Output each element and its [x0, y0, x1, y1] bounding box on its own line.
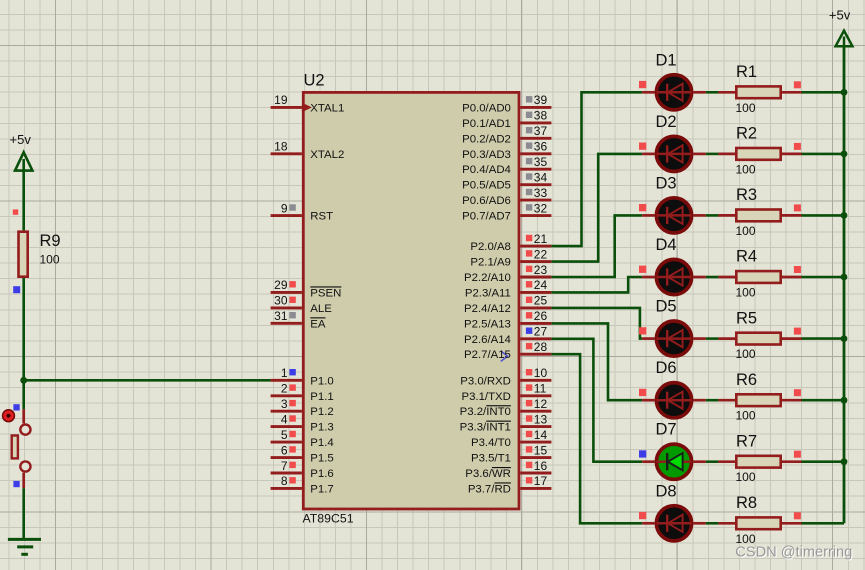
AT89C51 part value label — [303, 512, 354, 526]
svg-text:XTAL1: XTAL1 — [310, 102, 344, 114]
R3 label — [736, 186, 757, 204]
R6 value 100 — [736, 409, 756, 423]
resistor R5 — [718, 333, 801, 345]
svg-text:R5: R5 — [736, 309, 757, 327]
pin 15 (P3.5/T1) right side — [471, 443, 551, 464]
svg-text:P1.6: P1.6 — [310, 468, 333, 480]
svg-text:16: 16 — [534, 459, 548, 473]
svg-text:29: 29 — [274, 278, 288, 292]
R1 label — [736, 63, 757, 81]
pin 4 (P1.3) left side — [271, 412, 334, 433]
pin 23 (P2.2/A10) right side — [464, 263, 551, 284]
wire +5v to R9 — [22, 171, 25, 231]
pin 37 (P0.2/AD2) right side — [462, 124, 551, 145]
junction dot R9/P1.0/button — [20, 377, 27, 384]
svg-text:P1.0: P1.0 — [310, 375, 333, 387]
LED D3 — [642, 198, 706, 233]
svg-text:P2.2/A10: P2.2/A10 — [464, 272, 511, 284]
LED D4 — [642, 259, 706, 294]
svg-text:P2.7/A15: P2.7/A15 — [464, 349, 511, 361]
svg-text:D6: D6 — [656, 359, 677, 377]
pin 39 (P0.0/AD0) right side — [462, 93, 551, 114]
svg-text:P2.5/A13: P2.5/A13 — [464, 318, 511, 330]
svg-text:P3.1/TXD: P3.1/TXD — [462, 391, 511, 403]
pin 32 (P0.7/AD7) right side — [462, 201, 551, 222]
wire resistor R8 to +5v rail — [802, 522, 845, 525]
svg-text:R8: R8 — [736, 494, 757, 512]
pin 14 (P3.4/T0) right side — [471, 428, 551, 449]
push button top contact — [20, 425, 30, 435]
svg-text:23: 23 — [534, 263, 548, 277]
svg-text:2: 2 — [281, 382, 288, 396]
pin 35 (P0.4/AD4) right side — [462, 155, 551, 176]
R1 rail-side state square — [794, 81, 801, 88]
wire P2.6 (pin 27) to LED D7 — [551, 339, 642, 462]
svg-text:6: 6 — [281, 443, 288, 457]
wire LED D5 to resistor R5 — [706, 337, 719, 340]
svg-text:100: 100 — [736, 101, 756, 115]
wire P2.2 (pin 23) to LED D3 — [551, 215, 642, 277]
pin 7 (P1.6) left side — [271, 459, 334, 480]
D6 label — [656, 359, 677, 377]
svg-text:D3: D3 — [656, 174, 677, 192]
svg-text:PSEN: PSEN — [310, 287, 341, 299]
resistor R6 — [718, 394, 801, 406]
LED D5 state square — [639, 327, 646, 334]
push button bottom contact — [20, 461, 30, 471]
wire LED D7 to resistor R7 — [706, 460, 719, 463]
wire P2.3 (pin 24) to LED D4 — [551, 277, 642, 292]
CSDN watermark — [735, 544, 853, 561]
svg-text:P3.2/INT0: P3.2/INT0 — [460, 406, 511, 418]
svg-text:14: 14 — [534, 428, 548, 442]
junction dot rail/R6 — [841, 397, 848, 404]
resistor R3 — [718, 210, 801, 222]
junction dot rail/R3 — [841, 212, 848, 219]
wire resistor R7 to +5v rail — [802, 460, 845, 463]
svg-text:18: 18 — [274, 140, 288, 154]
resistor R2 — [718, 148, 801, 160]
pin 28 bus-entry chevron marker — [501, 351, 508, 361]
svg-text:D2: D2 — [656, 113, 677, 131]
pin 31 (EA) left side — [271, 309, 326, 330]
svg-text:100: 100 — [736, 162, 756, 176]
svg-text:7: 7 — [281, 459, 288, 473]
R5 value 100 — [736, 347, 756, 361]
R8 label — [736, 494, 757, 512]
wire junction to pin 1 (P1.0) — [24, 379, 271, 382]
svg-text:100: 100 — [736, 224, 756, 238]
junction dot rail/R7 — [841, 458, 848, 465]
resistor R8 — [718, 517, 801, 529]
pin 29 (PSEN) left side — [271, 278, 342, 299]
D1 label — [656, 51, 677, 69]
junction dot rail/R5 — [841, 335, 848, 342]
R8 rail-side state square — [794, 512, 801, 519]
pin 19 (XTAL1) left side — [271, 93, 345, 114]
pin 2 (P1.1) left side — [271, 382, 334, 403]
svg-text:P2.0/A8: P2.0/A8 — [470, 241, 511, 253]
svg-text:+5v: +5v — [829, 8, 851, 23]
svg-text:P3.5/T1: P3.5/T1 — [471, 453, 511, 465]
svg-text:P1.4: P1.4 — [310, 437, 333, 449]
junction dot rail/R2 — [841, 151, 848, 158]
pin 12 (P3.2/INT0) right side — [460, 397, 552, 418]
pin 10 (P3.0/RXD) right side — [460, 366, 551, 387]
LED D7 — [642, 444, 706, 479]
LED D4 state square — [639, 266, 646, 273]
R3 value 100 — [736, 224, 756, 238]
R4 value 100 — [736, 286, 756, 300]
LED D6 — [642, 383, 706, 418]
svg-text:R3: R3 — [736, 186, 757, 204]
D5 label — [656, 298, 677, 316]
svg-text:XTAL2: XTAL2 — [310, 149, 344, 161]
svg-text:P3.4/T0: P3.4/T0 — [471, 437, 511, 449]
pin 8 (P1.7) left side — [271, 474, 334, 495]
+5v power symbol top left — [10, 132, 33, 171]
svg-text:P2.6/A14: P2.6/A14 — [464, 334, 511, 346]
pin 24 (P2.3/A11) right side — [465, 278, 552, 299]
pin 27 (P2.6/A14) right side — [464, 325, 551, 346]
R2 value 100 — [736, 162, 756, 176]
LED D2 — [642, 136, 706, 171]
pin 36 (P0.3/AD3) right side — [462, 140, 551, 161]
R6 rail-side state square — [794, 389, 801, 396]
pin 1 (P1.0) left side — [271, 366, 334, 387]
resistor R7 — [718, 456, 801, 468]
D8 label — [656, 482, 677, 500]
wire P2.5 (pin 26) to LED D6 — [551, 323, 642, 400]
U2 reference label — [304, 72, 325, 90]
svg-text:17: 17 — [534, 474, 548, 488]
wire LED D6 to resistor R6 — [706, 399, 719, 402]
pin 9 (RST) left side — [271, 201, 334, 222]
svg-text:12: 12 — [534, 397, 548, 411]
pin 16 (P3.6/WR) right side — [465, 459, 551, 480]
wire LED D4 to resistor R4 — [706, 276, 719, 279]
svg-text:R9: R9 — [40, 232, 61, 250]
+5v vertical rail wire — [843, 46, 846, 524]
pin 28 (P2.7/A15) right side — [464, 340, 551, 361]
pin 25 (P2.4/A12) right side — [464, 294, 551, 315]
IC U2 (AT89C51) body — [303, 92, 519, 509]
wire resistor R3 to +5v rail — [802, 214, 845, 217]
R7 rail-side state square — [794, 451, 801, 458]
R5 label — [736, 309, 757, 327]
LED D2 state square — [639, 143, 646, 150]
pin 30 (ALE) left side — [271, 294, 333, 315]
svg-text:R2: R2 — [736, 125, 757, 143]
svg-text:100: 100 — [736, 286, 756, 300]
pin 11 (P3.1/TXD) right side — [462, 382, 552, 403]
R2 rail-side state square — [794, 143, 801, 150]
svg-text:P0.4/AD4: P0.4/AD4 — [462, 164, 511, 176]
wire LED D3 to resistor R3 — [706, 214, 719, 217]
LED D3 state square — [639, 204, 646, 211]
wire LED D2 to resistor R2 — [706, 153, 719, 156]
svg-text:P0.6/AD6: P0.6/AD6 — [462, 195, 511, 207]
svg-text:31: 31 — [274, 309, 288, 323]
svg-text:R6: R6 — [736, 371, 757, 389]
svg-text:35: 35 — [534, 155, 548, 169]
pin 13 (P3.3/INT1) right side — [460, 412, 552, 433]
R8 value 100 — [736, 532, 756, 546]
pin 17 (P3.7/RD) right side — [468, 474, 552, 495]
svg-text:D5: D5 — [656, 298, 677, 316]
svg-text:13: 13 — [534, 412, 548, 426]
pin 26 (P2.5/A13) right side — [464, 309, 551, 330]
svg-text:P1.1: P1.1 — [310, 391, 333, 403]
wire resistor R1 to +5v rail — [802, 91, 845, 94]
svg-text:28: 28 — [534, 340, 548, 354]
svg-text:R7: R7 — [736, 432, 757, 450]
R1 value 100 — [736, 101, 756, 115]
wire resistor R2 to +5v rail — [802, 153, 845, 156]
svg-text:P3.0/RXD: P3.0/RXD — [460, 375, 511, 387]
pin 34 (P0.5/AD5) right side — [462, 171, 551, 192]
R6 label — [736, 371, 757, 389]
R9 top state square (red) — [13, 209, 18, 214]
D7 label — [656, 421, 677, 439]
svg-text:P2.3/A11: P2.3/A11 — [465, 287, 511, 299]
junction dot rail/R1 — [841, 89, 848, 96]
+5v power symbol top right — [829, 8, 853, 47]
svg-text:10: 10 — [534, 366, 548, 380]
push button actuator bar — [12, 436, 18, 459]
LED D8 state square — [639, 512, 646, 519]
svg-text:P3.7/RD: P3.7/RD — [468, 483, 511, 495]
svg-text:19: 19 — [274, 93, 288, 107]
R3 rail-side state square — [794, 204, 801, 211]
svg-text:P0.5/AD5: P0.5/AD5 — [462, 180, 511, 192]
resistor R1 — [718, 86, 801, 98]
svg-text:8: 8 — [281, 474, 288, 488]
D2 label — [656, 113, 677, 131]
LED D7 state square — [639, 450, 646, 457]
wire resistor R5 to +5v rail — [802, 337, 845, 340]
svg-text:5: 5 — [281, 428, 288, 442]
wire LED D8 to resistor R8 — [706, 522, 719, 525]
push button top blue state square — [13, 404, 19, 410]
svg-text:P3.6/WR: P3.6/WR — [465, 468, 511, 480]
svg-text:27: 27 — [534, 325, 548, 339]
svg-text:38: 38 — [534, 109, 548, 123]
svg-text:39: 39 — [534, 93, 548, 107]
svg-text:21: 21 — [534, 232, 548, 246]
ground symbol — [8, 539, 41, 554]
wire P2.1 (pin 22) to LED D2 — [551, 154, 642, 262]
svg-text:100: 100 — [736, 409, 756, 423]
svg-text:R4: R4 — [736, 248, 757, 266]
pin 33 (P0.6/AD6) right side — [462, 186, 551, 207]
D3 label — [656, 174, 677, 192]
XTAL1 clock input arrow — [302, 103, 312, 113]
svg-text:36: 36 — [534, 140, 548, 154]
svg-text:11: 11 — [534, 382, 547, 396]
push button actuator indicator (red) — [3, 410, 15, 422]
svg-text:100: 100 — [736, 470, 756, 484]
wire resistor R4 to +5v rail — [802, 276, 845, 279]
pin 3 (P1.2) left side — [271, 397, 334, 418]
resistor R4 — [718, 271, 801, 283]
svg-text:P0.1/AD1: P0.1/AD1 — [462, 118, 511, 130]
svg-text:P0.0/AD0: P0.0/AD0 — [462, 102, 511, 114]
svg-text:P1.7: P1.7 — [310, 483, 333, 495]
wire R9 to junction — [22, 278, 25, 409]
LED D5 — [642, 321, 706, 356]
svg-text:30: 30 — [274, 294, 288, 308]
svg-text:AT89C51: AT89C51 — [303, 512, 354, 526]
svg-text:32: 32 — [534, 201, 548, 215]
pin 6 (P1.5) left side — [271, 443, 334, 464]
svg-text:25: 25 — [534, 294, 548, 308]
svg-text:1: 1 — [281, 366, 288, 380]
wire LED D1 to resistor R1 — [706, 91, 719, 94]
svg-text:100: 100 — [40, 253, 60, 267]
LED D8 — [642, 506, 706, 541]
svg-text:R1: R1 — [736, 63, 757, 81]
svg-text:24: 24 — [534, 278, 548, 292]
svg-text:4: 4 — [281, 412, 288, 426]
svg-text:P0.3/AD3: P0.3/AD3 — [462, 149, 511, 161]
R9 bottom state square (blue) — [13, 286, 20, 293]
R5 rail-side state square — [794, 328, 801, 335]
LED D1 state square — [639, 81, 646, 88]
pin 22 (P2.1/A9) right side — [470, 247, 551, 268]
svg-text:U2: U2 — [304, 72, 325, 90]
svg-text:RST: RST — [310, 211, 333, 223]
svg-text:ALE: ALE — [310, 303, 332, 315]
svg-text:100: 100 — [736, 347, 756, 361]
svg-text:P0.7/AD7: P0.7/AD7 — [462, 211, 511, 223]
R4 label — [736, 248, 757, 266]
pin 18 (XTAL2) left side — [271, 140, 345, 161]
svg-text:D7: D7 — [656, 421, 677, 439]
R2 label — [736, 125, 757, 143]
push button bottom lead — [22, 473, 25, 489]
svg-text:P1.2: P1.2 — [310, 406, 333, 418]
svg-text:3: 3 — [281, 397, 288, 411]
wire P2.4 (pin 25) to LED D5 — [551, 308, 642, 339]
svg-text:P0.2/AD2: P0.2/AD2 — [462, 133, 511, 145]
svg-text:34: 34 — [534, 171, 548, 185]
wire resistor R6 to +5v rail — [802, 399, 845, 402]
svg-text:37: 37 — [534, 124, 548, 138]
resistor R9 — [19, 232, 28, 277]
D4 label — [656, 236, 677, 254]
svg-text:P3.3/INT1: P3.3/INT1 — [460, 422, 511, 434]
push button top lead — [22, 409, 25, 423]
pin 5 (P1.4) left side — [271, 428, 334, 449]
wire P2.0 (pin 21) to LED D1 — [551, 92, 642, 246]
pin 21 (P2.0/A8) right side — [470, 232, 551, 253]
svg-text:15: 15 — [534, 443, 548, 457]
svg-text:P2.1/A9: P2.1/A9 — [470, 257, 511, 269]
svg-text:EA: EA — [310, 318, 326, 330]
R4 rail-side state square — [794, 266, 801, 273]
R7 value 100 — [736, 470, 756, 484]
svg-text:26: 26 — [534, 309, 548, 323]
svg-text:P1.3: P1.3 — [310, 422, 333, 434]
svg-text:D4: D4 — [656, 236, 677, 254]
LED D6 state square — [639, 389, 646, 396]
junction dot rail/R4 — [841, 274, 848, 281]
svg-text:9: 9 — [281, 201, 288, 215]
svg-text:D1: D1 — [656, 51, 677, 69]
R7 label — [736, 432, 757, 450]
svg-text:D8: D8 — [656, 482, 677, 500]
pin 38 (P0.1/AD1) right side — [462, 109, 551, 130]
svg-text:CSDN @timerring: CSDN @timerring — [735, 544, 852, 560]
svg-text:22: 22 — [534, 247, 548, 261]
wire button to ground — [22, 488, 25, 539]
svg-text:+5v: +5v — [10, 132, 32, 147]
R9 value 100 — [40, 253, 60, 267]
wire P2.7 (pin 28) to LED D8 — [551, 354, 642, 523]
push button bottom blue state square — [13, 481, 19, 487]
svg-text:P2.4/A12: P2.4/A12 — [464, 303, 511, 315]
R9 label — [40, 232, 61, 250]
svg-text:P1.5: P1.5 — [310, 453, 333, 465]
LED D1 — [642, 75, 706, 110]
svg-text:33: 33 — [534, 186, 548, 200]
